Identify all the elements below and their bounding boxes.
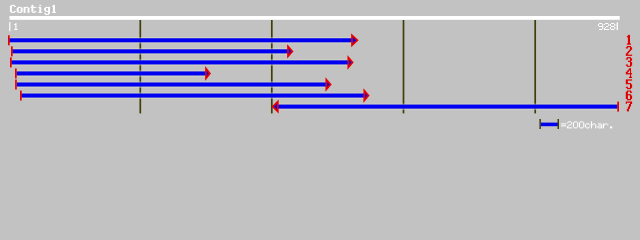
ruler label 1 [9,22,10,31]
read 4 arrow [15,68,210,78]
legend right tick [558,119,560,129]
read 7 number [626,102,632,112]
gridline 200 [139,20,141,113]
read 1 number [627,35,631,45]
read 4 number [626,68,632,78]
read 6 number [626,90,632,100]
read 3 number [626,57,632,67]
read 5 arrow [15,80,331,90]
read 5 number [626,79,632,89]
read 3 arrow [10,57,353,67]
gridline 400 [271,20,273,113]
read 1 arrow [8,35,357,45]
ruler bar [10,16,620,20]
read 6 arrow [20,91,369,101]
gridline 800 [534,20,536,113]
gridline 600 [403,20,405,113]
read 7 arrow (reverse) [273,102,619,112]
legend left tick [539,119,541,129]
legend text =200char. [561,121,612,128]
ruler label 928 [598,23,615,30]
read 2 number [626,46,632,56]
legend bar [541,123,558,127]
read 2 arrow [11,46,292,56]
title Contig1 [10,5,56,15]
